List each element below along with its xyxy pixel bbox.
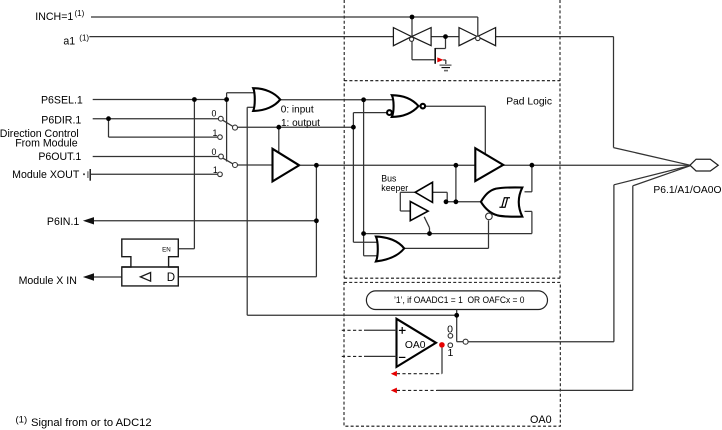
svg-text:EN: EN — [162, 247, 171, 254]
svg-text:OA0: OA0 — [405, 340, 426, 351]
svg-text:P6IN.1: P6IN.1 — [47, 216, 79, 228]
svg-text:(1): (1) — [79, 34, 89, 43]
svg-text:P6DIR.1: P6DIR.1 — [41, 114, 81, 126]
svg-text:1: 1 — [447, 347, 453, 359]
svg-text:P6.1/A1/OA0O: P6.1/A1/OA0O — [653, 185, 721, 196]
svg-text:1: output: 1: output — [281, 118, 320, 129]
svg-text:0: 0 — [211, 147, 216, 157]
svg-text:OA0: OA0 — [530, 414, 552, 426]
svg-text:D: D — [167, 272, 175, 284]
svg-text:INCH=1: INCH=1 — [35, 11, 73, 23]
svg-text:1: 1 — [213, 165, 218, 175]
svg-text:0: 0 — [212, 108, 217, 118]
svg-text:keeper: keeper — [381, 183, 408, 193]
svg-text:Pad Logic: Pad Logic — [506, 97, 552, 108]
svg-text:Signal from or to ADC12: Signal from or to ADC12 — [31, 417, 152, 429]
svg-text:1: 1 — [212, 128, 217, 138]
svg-text:P6SEL.1: P6SEL.1 — [41, 94, 83, 106]
svg-text:Module X IN: Module X IN — [19, 275, 77, 287]
svg-text:’1’, if OAADC1 = 1 OR OAFCx =: ’1’, if OAADC1 = 1 OR OAFCx = 0 — [394, 295, 525, 305]
svg-text:P6OUT.1: P6OUT.1 — [38, 151, 81, 163]
svg-text:(1): (1) — [75, 9, 85, 18]
svg-text:0: 0 — [447, 323, 453, 335]
svg-text:0: input: 0: input — [281, 105, 314, 116]
svg-text:(1): (1) — [16, 414, 28, 425]
svg-text:From Module: From Module — [15, 137, 78, 149]
svg-text:Module XOUT: Module XOUT — [12, 169, 80, 181]
svg-text:a1: a1 — [63, 36, 75, 48]
